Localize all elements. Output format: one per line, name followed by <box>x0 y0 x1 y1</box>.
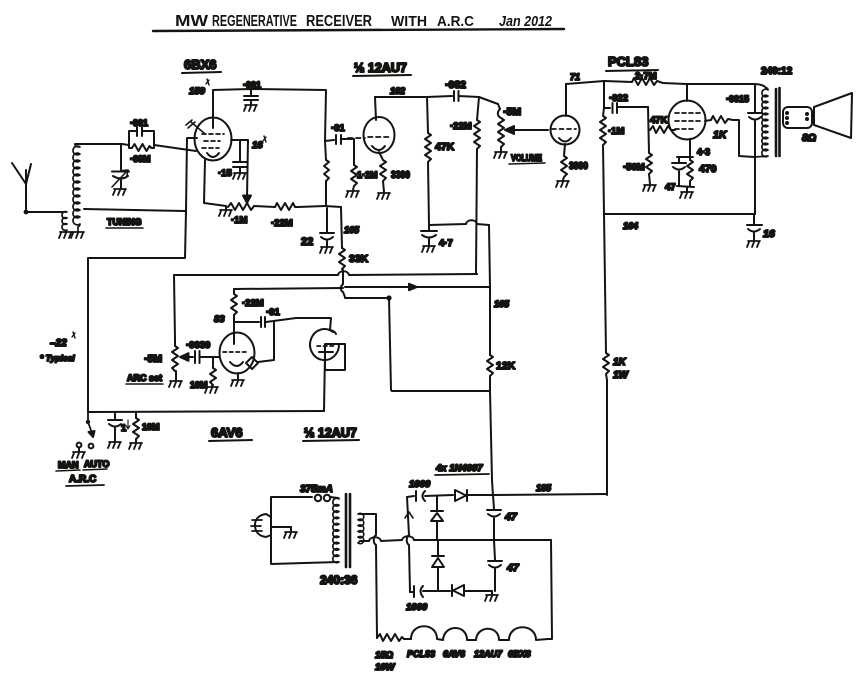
svg-text:·0039: ·0039 <box>186 340 210 351</box>
svg-text:PCL83: PCL83 <box>608 54 648 69</box>
wire regen line1 <box>174 271 477 275</box>
svg-text:·56M: ·56M <box>623 162 645 173</box>
svg-text:·001: ·001 <box>243 80 261 90</box>
svg-text:165: 165 <box>494 299 510 309</box>
cathode V6 <box>689 139 691 156</box>
resistor 10M grid 6AV6 <box>210 357 216 386</box>
svg-text:* Typical: * Typical <box>40 353 75 363</box>
wire anode top rail <box>213 89 326 141</box>
capacitor 47 lower <box>488 540 502 591</box>
svg-text:240:36: 240:36 <box>320 573 358 587</box>
wire diamond to .01 node <box>258 322 274 362</box>
coupling coil L1a <box>62 212 67 231</box>
svg-text:1K: 1K <box>713 129 728 141</box>
wiper arrow .5M <box>180 353 189 361</box>
transformer OT primary <box>755 88 768 157</box>
svg-text:·022: ·022 <box>609 93 628 104</box>
svg-text:470: 470 <box>699 163 717 175</box>
svg-text:8Ω: 8Ω <box>802 132 816 144</box>
diode D3 <box>432 540 444 591</box>
wire mains bottom <box>271 535 338 564</box>
capacitor 47 upper <box>487 495 501 540</box>
svg-text:MW: MW <box>175 13 209 30</box>
transformer PT secondary <box>358 513 364 543</box>
svg-text:10W: 10W <box>375 662 396 673</box>
arrow onto .1M wiper <box>243 196 251 204</box>
transformer PT core <box>346 494 350 567</box>
wire .22M top to 33K node <box>234 288 343 289</box>
wire 165 node down <box>341 207 342 248</box>
ground cathode V6 <box>677 186 694 191</box>
potentiometer .5M ARC set <box>172 340 178 380</box>
anode stub V3 <box>233 322 235 344</box>
svg-text:47: 47 <box>665 182 676 193</box>
resistor .22M 6AV6 anode <box>231 289 237 322</box>
svg-text:1·2M: 1·2M <box>357 170 378 180</box>
capacitor 16 <box>747 214 762 240</box>
resistor grid leak (unlabelled) <box>324 141 329 206</box>
wire secondary top to heater chain <box>359 514 377 638</box>
svg-text:Jan 2012: Jan 2012 <box>499 13 553 30</box>
svg-text:·01: ·01 <box>266 307 280 318</box>
arrow variable-cap <box>112 170 128 187</box>
svg-text:47K: 47K <box>435 141 455 153</box>
tube V1 6BX6 envelope <box>195 118 232 161</box>
svg-text:2·7M: 2·7M <box>635 71 657 82</box>
svg-text:PCL83: PCL83 <box>407 649 435 659</box>
anode V5 <box>565 84 567 116</box>
svg-text:164: 164 <box>623 221 638 231</box>
svg-text:·5M: ·5M <box>503 106 521 118</box>
svg-text:½ 12AU7: ½ 12AU7 <box>304 426 357 440</box>
capacitor tuning (variable) <box>112 145 129 188</box>
svg-text:159: 159 <box>189 86 206 97</box>
wire mid rail 0V <box>360 536 551 541</box>
svg-text:·68M: ·68M <box>130 154 151 164</box>
svg-text:3300: 3300 <box>391 170 410 181</box>
tube V5 half-12AU7 volume envelope <box>551 116 580 145</box>
cathode arc V5 <box>559 138 571 142</box>
node antenna junction <box>24 210 29 215</box>
mains plug <box>255 514 271 537</box>
node 22uF junction <box>325 206 341 207</box>
node anode dot <box>386 295 391 300</box>
svg-text:47: 47 <box>506 562 520 574</box>
svg-text:10M: 10M <box>142 422 160 432</box>
svg-text:REGENERATIVE: REGENERATIVE <box>212 13 297 30</box>
wire heater return <box>548 540 552 639</box>
svg-text:1000: 1000 <box>409 479 431 490</box>
ground tuning coil <box>71 232 84 238</box>
wire line2 anode to 165 rail <box>345 286 489 288</box>
wire anode node down to 391 rail <box>389 298 489 391</box>
ground pot .1M <box>225 206 227 209</box>
svg-text:240:12: 240:12 <box>761 66 793 77</box>
capacitor .0015 <box>748 84 762 214</box>
svg-text:4·3: 4·3 <box>697 147 710 157</box>
resistor 470 <box>677 157 693 186</box>
capacitor .001 anode bypass <box>244 90 258 104</box>
svg-text:1: 1 <box>121 423 127 434</box>
capacitor .001 grid RC <box>129 127 154 145</box>
svg-text:16: 16 <box>252 140 263 151</box>
svg-text:12AU7: 12AU7 <box>474 649 503 659</box>
resistor 47K grid stopper <box>650 126 675 133</box>
svg-text:1000: 1000 <box>406 602 428 613</box>
capacitor .01 coupling V1-V2 <box>325 135 354 144</box>
resistor 2.7M <box>604 78 766 88</box>
switch arm MAN/AUTO <box>87 412 89 421</box>
transformer PT primary <box>333 498 339 563</box>
wire 185 rail <box>493 494 607 495</box>
wire line B 165 <box>489 225 490 355</box>
resistor 1K screen <box>705 116 754 157</box>
svg-text:TUNING: TUNING <box>107 217 142 227</box>
ground 3900 <box>556 181 569 187</box>
svg-text:–22: –22 <box>50 338 67 349</box>
switch contact AUTO <box>89 444 94 449</box>
svg-text:·22M: ·22M <box>242 298 264 309</box>
svg-text:·22M: ·22M <box>450 121 472 132</box>
capacitor 1000 bottom <box>410 586 450 597</box>
wire anode V5 to node <box>566 81 604 84</box>
wire coil top to RC and tuning cap <box>75 144 129 145</box>
svg-text:165: 165 <box>344 225 360 235</box>
cathode lead V4 <box>324 353 325 411</box>
capacitor 47 cathode <box>672 157 686 186</box>
capacitor 1000 top <box>407 491 453 501</box>
ground tuning cap <box>113 189 126 195</box>
grid dashes V3 <box>223 351 246 353</box>
svg-text:ARC set: ARC set <box>127 373 162 383</box>
grid dashes V1 <box>202 134 224 148</box>
capacitor .01 ARC <box>234 317 330 327</box>
cathode arc V1 <box>207 153 219 157</box>
resistor 10M AVC <box>133 412 139 442</box>
grid dashes V4 <box>317 345 335 347</box>
grid-1 top-cap hatch <box>186 120 204 133</box>
ground 10M AVC <box>129 443 142 449</box>
wire 47K bottom to 165 line with hop <box>429 220 489 225</box>
ground .56M <box>643 185 656 191</box>
heater 6AV6 <box>443 628 476 640</box>
ground volume pot <box>494 152 507 158</box>
ground 16 <box>747 241 760 247</box>
cathode-to-pot wire V1 <box>204 160 226 206</box>
wire mains top <box>271 497 312 517</box>
wire .082 to volume pot <box>479 97 500 109</box>
ground 4.7 <box>422 246 435 252</box>
cathode arc V2 <box>372 146 385 150</box>
ground .15 <box>233 173 246 179</box>
arrow on line2 <box>409 284 417 290</box>
tube V4 half-12AU7 envelope <box>330 318 336 334</box>
resistor .56M <box>646 107 652 184</box>
resistor 1.2M <box>351 139 357 190</box>
svg-text:6BX6: 6BX6 <box>184 57 217 72</box>
wire anode rail 102 <box>375 96 452 97</box>
anode V6 <box>686 84 688 101</box>
svg-text:A.R.C: A.R.C <box>437 13 474 30</box>
svg-text:12K: 12K <box>496 360 516 372</box>
ground .5M <box>169 381 182 387</box>
diode D2 <box>431 496 443 540</box>
capacitor 22 <box>320 208 334 246</box>
tuning coil L1b <box>73 145 80 231</box>
svg-text:6AV6: 6AV6 <box>443 649 466 659</box>
TITLE <box>175 13 553 30</box>
diode plate diamond V3 <box>246 357 258 369</box>
wire regen down to ARC pot <box>174 275 175 340</box>
tube V6 PCL83 envelope <box>669 101 706 140</box>
wire line3 anode <box>345 297 388 299</box>
anode box V4 <box>325 344 345 370</box>
svg-text:16: 16 <box>763 228 775 240</box>
svg-text:·082: ·082 <box>445 79 466 91</box>
wire ARC bottom rail <box>88 411 324 412</box>
capacitor .082 <box>452 91 479 101</box>
resistor .22M <box>275 203 325 210</box>
cathode stub and drop V1 <box>88 138 197 412</box>
resistor 12K <box>487 355 493 496</box>
svg-text:15Ω: 15Ω <box>375 650 394 661</box>
ground 1.2M <box>346 191 359 197</box>
svg-text:33K: 33K <box>349 253 369 265</box>
svg-text:A.R.C: A.R.C <box>69 474 96 485</box>
svg-text:·5M: ·5M <box>144 353 162 365</box>
grid dashes V2 <box>348 137 389 138</box>
heater 12AU7 <box>476 629 509 640</box>
cathode ground V3 <box>237 373 239 379</box>
tube V2 half-12AU7 envelope <box>364 117 395 153</box>
svg-text:47K: 47K <box>650 115 668 126</box>
svg-text:1K: 1K <box>613 357 627 368</box>
svg-text:22: 22 <box>301 236 313 248</box>
wire 164 rail <box>604 213 755 215</box>
capacitor .15 <box>233 141 247 172</box>
svg-text:185: 185 <box>536 483 552 493</box>
screen wire V1 <box>231 140 248 197</box>
svg-text:·22M: ·22M <box>271 218 293 229</box>
svg-text:375mA: 375mA <box>300 484 333 495</box>
grid dashes V6 <box>675 113 700 129</box>
svg-text:47: 47 <box>504 511 518 523</box>
svg-text:·01: ·01 <box>331 123 345 134</box>
svg-text:83: 83 <box>214 314 225 325</box>
ground .001 <box>244 105 257 111</box>
ground 1uF <box>108 442 121 448</box>
heater PCL83 <box>411 626 443 640</box>
ground 22 <box>320 247 333 253</box>
resistor 15R <box>377 634 411 641</box>
ground coupling coil <box>59 232 72 238</box>
svg-text:·0015: ·0015 <box>726 94 749 104</box>
svg-text:½ 12AU7: ½ 12AU7 <box>354 61 407 75</box>
bridge left vertical <box>407 497 410 592</box>
switch contact MAN <box>77 443 82 448</box>
ground bridge <box>491 591 493 594</box>
anode V2 <box>375 97 376 120</box>
ground MAN <box>78 448 80 451</box>
capacitor 1 <box>108 412 122 441</box>
speaker voice coil box <box>783 107 812 128</box>
capacitor .0039 <box>189 351 219 363</box>
svg-text:10M: 10M <box>190 380 208 390</box>
antenna <box>12 163 31 212</box>
wire node down with .1M <box>603 81 605 108</box>
svg-text:AUTO: AUTO <box>84 459 109 469</box>
wire 33K bottom jog to anode node <box>341 270 345 297</box>
svg-text:RECEIVER: RECEIVER <box>306 13 372 30</box>
svg-text:MAN: MAN <box>58 460 79 470</box>
svg-text:6BX6: 6BX6 <box>508 649 532 659</box>
diode D4 <box>452 585 464 596</box>
cathode arc V3 <box>230 362 243 366</box>
svg-text:·1M: ·1M <box>608 126 624 137</box>
title underline <box>153 29 564 31</box>
resistor .22M feedback <box>474 97 480 274</box>
ground 3300 <box>377 193 390 199</box>
resistor 1K 1W <box>603 214 609 495</box>
svg-text:71: 71 <box>570 72 580 82</box>
svg-text:6AV6: 6AV6 <box>211 425 243 440</box>
grid dashes V5 <box>552 128 576 130</box>
resistor .1M plate load <box>600 108 606 214</box>
plug earth wire <box>271 527 291 531</box>
svg-text:WITH: WITH <box>391 13 427 30</box>
resistor .68M grid RC <box>129 144 154 151</box>
tube V3 6AV6 envelope <box>220 333 255 374</box>
transformer OT core <box>776 88 780 156</box>
potentiometer .1M <box>228 203 275 210</box>
capacitor .022 <box>604 103 648 113</box>
resistor 3300 cathode V2 <box>379 152 386 192</box>
heater 6BX6 <box>509 627 548 640</box>
cathode bar V4 <box>319 351 333 353</box>
svg-text:1W: 1W <box>613 370 630 381</box>
svg-text:4x 1N4007: 4x 1N4007 <box>435 463 483 474</box>
resistor 47K anode load <box>425 97 431 225</box>
ground 10M grid <box>205 387 218 393</box>
diode D1 <box>455 490 467 501</box>
voice coil dots <box>785 111 809 125</box>
resistor 3900 <box>561 144 567 180</box>
plug prongs <box>251 520 262 531</box>
svg-text:4·7: 4·7 <box>439 238 453 249</box>
svg-text:VOLUME: VOLUME <box>511 153 542 163</box>
svg-text:·1M: ·1M <box>231 215 247 226</box>
wire RC to grid <box>154 145 196 151</box>
wire coil tap to cathode line <box>84 209 185 211</box>
wire antenna to coupling coil <box>26 211 64 213</box>
speaker cone <box>814 93 852 138</box>
resistor 33K <box>339 248 345 270</box>
fuse 375mA <box>315 495 321 501</box>
svg-text:·15: ·15 <box>218 168 232 179</box>
svg-text:102: 102 <box>390 86 405 96</box>
svg-text:·001: ·001 <box>130 118 148 128</box>
potentiometer .5M volume <box>498 109 504 151</box>
wiper arrow volume <box>512 129 548 131</box>
anode V1 <box>212 90 214 128</box>
svg-text:3900: 3900 <box>569 161 588 172</box>
capacitor 4.7 <box>421 225 437 245</box>
